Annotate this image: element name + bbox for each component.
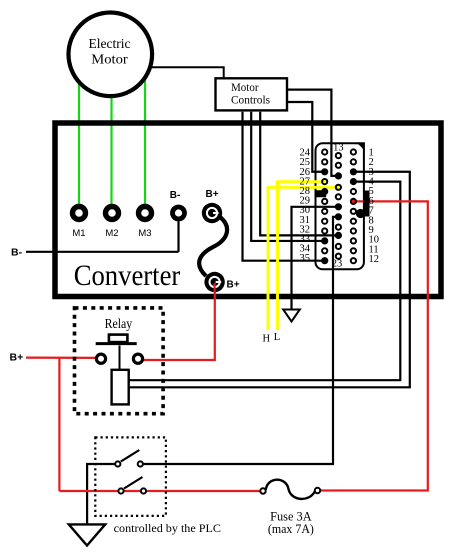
svg-text:M2: M2 [105, 228, 118, 239]
svg-text:M1: M1 [72, 228, 85, 239]
svg-text:(max 7A): (max 7A) [268, 522, 314, 536]
svg-text:B-: B- [170, 190, 181, 201]
svg-text:Motor: Motor [231, 82, 259, 94]
svg-text:12: 12 [369, 254, 380, 265]
svg-text:L: L [274, 332, 280, 343]
svg-text:B+: B+ [205, 189, 218, 200]
svg-text:B+: B+ [10, 352, 24, 364]
svg-text:35: 35 [300, 253, 311, 264]
svg-text:Electric: Electric [89, 37, 131, 52]
svg-text:H: H [263, 334, 271, 345]
svg-text:controlled by the PLC: controlled by the PLC [114, 521, 221, 535]
svg-text:Motor: Motor [91, 53, 128, 68]
svg-text:Controls: Controls [231, 95, 271, 107]
svg-text:Relay: Relay [105, 317, 133, 332]
svg-text:M3: M3 [138, 228, 151, 239]
svg-text:13: 13 [333, 143, 344, 154]
svg-text:B+: B+ [227, 280, 240, 291]
svg-text:B-: B- [11, 247, 23, 259]
svg-text:Converter: Converter [74, 259, 181, 292]
svg-text:23: 23 [332, 259, 343, 270]
